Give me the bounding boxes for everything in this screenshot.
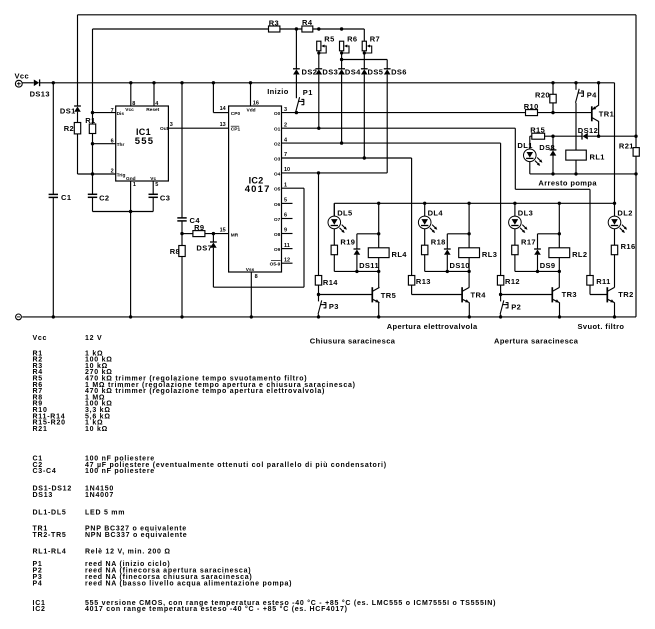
wire DS12 to R21 node bbox=[588, 135, 636, 137]
relay RL3 bbox=[459, 248, 480, 258]
svg-text:R17: R17 bbox=[521, 238, 536, 247]
junction rail-DL4 bbox=[423, 202, 426, 205]
diode DS5 bbox=[361, 68, 368, 70]
svg-text:DL3: DL3 bbox=[518, 209, 533, 218]
wire DL3 feed bbox=[514, 203, 516, 216]
junction gnd-P3 bbox=[317, 315, 320, 318]
junction Thr bbox=[91, 142, 94, 145]
wire TR1 collector down bbox=[598, 122, 600, 137]
svg-text:4017: 4017 bbox=[245, 184, 271, 195]
diode DS2 bbox=[293, 68, 300, 70]
LED DL2 bbox=[608, 216, 621, 229]
resistor R19 bbox=[331, 245, 337, 255]
IC2 pin14 wire bbox=[212, 83, 214, 113]
svg-text:100 nF poliestere: 100 nF poliestere bbox=[85, 468, 155, 475]
LED DL5 bbox=[328, 216, 341, 229]
junction RL3-DS10 line bbox=[467, 232, 470, 235]
resistor R15 bbox=[532, 133, 545, 139]
svg-text:O3: O3 bbox=[274, 156, 281, 162]
svg-text:Dis: Dis bbox=[117, 111, 125, 117]
wire R15 to DS12 bbox=[545, 135, 582, 137]
wire TR4 emitter to ground bbox=[468, 303, 470, 317]
svg-text:O5-9: O5-9 bbox=[270, 262, 281, 268]
wire IC1 pin6 bbox=[93, 143, 116, 145]
wire R11 to TR2 base bbox=[589, 285, 591, 294]
junction Trig bbox=[91, 172, 94, 175]
transistor TR3 (NPN) bbox=[551, 287, 553, 302]
wire R2 to Trig line bbox=[77, 134, 79, 174]
svg-text:DS6: DS6 bbox=[391, 68, 407, 77]
wire Vcc rail bbox=[40, 82, 615, 84]
junction rail-C1 bbox=[52, 81, 55, 84]
svg-text:DL5: DL5 bbox=[337, 209, 352, 218]
wire R12 to TR3 base bbox=[500, 285, 502, 294]
wire DS5 string bbox=[363, 53, 365, 69]
svg-text:DS9: DS9 bbox=[540, 261, 556, 270]
svg-text:DS4: DS4 bbox=[345, 68, 361, 77]
junction gnd-R8 bbox=[180, 315, 183, 318]
wire C3 to bottom line bbox=[152, 197, 154, 211]
wire DL3 to R17 bbox=[514, 229, 516, 246]
IC1 pin8 stub bbox=[130, 83, 132, 106]
IC2 unused stub O7 bbox=[282, 218, 293, 220]
svg-text:C3-C4: C3-C4 bbox=[33, 468, 57, 475]
wire RL3 to collector bbox=[468, 271, 470, 287]
svg-text:DS7: DS7 bbox=[196, 243, 212, 252]
svg-text:RL3: RL3 bbox=[482, 250, 497, 259]
wire TR2 emitter to ground bbox=[614, 303, 616, 317]
junction line2-R6 bbox=[340, 27, 343, 30]
wire DS4 string bbox=[341, 53, 343, 69]
svg-text:DS1: DS1 bbox=[60, 106, 76, 115]
IC2 unused stub O5-9 bbox=[282, 262, 293, 264]
svg-text:R4: R4 bbox=[302, 18, 313, 27]
junction rail-P4 bbox=[574, 81, 577, 84]
svg-text:16: 16 bbox=[253, 101, 259, 107]
trimmer R5 bbox=[317, 41, 321, 51]
LED DL1 bbox=[524, 149, 537, 162]
svg-text:R13: R13 bbox=[416, 277, 431, 286]
resistor R8 bbox=[179, 246, 185, 257]
wire R15 left to DL1 bbox=[530, 135, 532, 137]
wire channel bottom line bbox=[334, 270, 378, 272]
junction line2-DS2 bbox=[295, 27, 298, 30]
reed P2 bbox=[500, 295, 502, 302]
svg-text:470 kΩ trimmer (regolazione te: 470 kΩ trimmer (regolazione tempo apertu… bbox=[85, 388, 325, 395]
svg-text:TR2-TR5: TR2-TR5 bbox=[33, 532, 67, 539]
junction rail-RL2 bbox=[558, 202, 561, 205]
junction channel rail feed bbox=[613, 202, 616, 205]
svg-text:C1: C1 bbox=[61, 193, 71, 202]
svg-text:O1: O1 bbox=[274, 127, 281, 133]
junction bottom line - pin1 bbox=[129, 210, 132, 213]
transistor TR4 (NPN) bbox=[461, 287, 463, 302]
junction O0-R20 bbox=[551, 111, 554, 114]
wire O4 to R14 bbox=[318, 173, 320, 276]
svg-text:R21: R21 bbox=[619, 141, 634, 150]
svg-text:R20: R20 bbox=[535, 91, 550, 100]
svg-text:15: 15 bbox=[220, 228, 226, 234]
svg-text:12 V: 12 V bbox=[85, 335, 102, 342]
diode DS11 bbox=[354, 248, 361, 250]
svg-text:9: 9 bbox=[284, 228, 287, 234]
ground terminal bbox=[16, 314, 22, 320]
resistor R14 bbox=[315, 276, 321, 286]
svg-text:NPN BC337 o equivalente: NPN BC337 o equivalente bbox=[85, 532, 187, 539]
wire C2 to bottom line bbox=[92, 197, 94, 211]
wire IC1 pin2 bbox=[78, 173, 116, 175]
junction DS4-DS6 link bbox=[340, 58, 343, 61]
svg-text:11: 11 bbox=[284, 243, 290, 249]
resistor R12 bbox=[497, 276, 503, 286]
svg-text:R6: R6 bbox=[347, 35, 357, 44]
diode DS1 bbox=[74, 105, 81, 107]
wire channel bottom line bbox=[425, 270, 469, 272]
junction R12-P2 bbox=[499, 293, 502, 296]
svg-text:R3: R3 bbox=[269, 18, 279, 27]
wire C1 to ground bbox=[52, 197, 54, 317]
wire Vcc terminal to DS13 bbox=[22, 82, 34, 84]
junction O0-P1 bbox=[295, 111, 298, 114]
svg-text:P4: P4 bbox=[33, 580, 43, 587]
wire DS10 string bbox=[446, 234, 448, 249]
wire top line 2 (R1 node to R3 R4 trimmers) bbox=[93, 28, 269, 30]
junction O3-DS5 bbox=[363, 156, 366, 159]
svg-text:DL4: DL4 bbox=[428, 209, 444, 218]
transistor TR1 (PNP) bbox=[591, 106, 593, 121]
wire C4 to R9 junction bbox=[181, 221, 183, 246]
wire R20 bbox=[552, 83, 554, 95]
svg-text:7: 7 bbox=[111, 108, 114, 114]
svg-text:CP1: CP1 bbox=[231, 127, 241, 133]
transistor TR5 (NPN) bbox=[371, 287, 373, 302]
wire C4 feed from rail bbox=[181, 83, 183, 218]
svg-text:DL1-DL5: DL1-DL5 bbox=[33, 510, 67, 517]
svg-text:Vc: Vc bbox=[150, 176, 156, 182]
junction R21 bottom bbox=[634, 172, 637, 175]
svg-text:O4: O4 bbox=[274, 171, 281, 177]
junction DS11 bottom bbox=[355, 270, 358, 273]
junction RL3 bottom bbox=[467, 270, 470, 273]
wire RL2 to collector bbox=[558, 271, 560, 287]
resistor R3 bbox=[269, 26, 280, 32]
LED DL4 bbox=[418, 216, 431, 229]
junction gnd-C1 bbox=[52, 315, 55, 318]
IC1 pin4 stub bbox=[153, 83, 155, 106]
svg-text:Vcc: Vcc bbox=[15, 71, 30, 80]
IC2 pin16 stub bbox=[250, 83, 252, 106]
junction RL1 bottom bbox=[574, 172, 577, 175]
resistor R16 bbox=[611, 245, 617, 255]
reed P1 (inizio) bbox=[296, 97, 300, 111]
wire DL4 feed bbox=[424, 203, 426, 216]
svg-text:P2: P2 bbox=[511, 303, 521, 312]
transistor TR2 (NPN) bbox=[606, 287, 608, 302]
junction DS8 bottom bbox=[551, 172, 554, 175]
svg-text:RL1: RL1 bbox=[590, 152, 605, 161]
junction RL2-DS9 line bbox=[558, 232, 561, 235]
wire IC1 out to IC2 pin13 bbox=[168, 127, 228, 129]
svg-text:O2: O2 bbox=[274, 142, 281, 148]
junction O4-R14 bbox=[317, 171, 320, 174]
relay RL1 bbox=[566, 150, 587, 160]
wire channel bottom line bbox=[515, 270, 559, 272]
wire R19 to bottom line bbox=[333, 255, 335, 272]
junction O1-DS3 bbox=[317, 127, 320, 130]
wire RL4 to collector bbox=[378, 271, 380, 287]
svg-text:R7: R7 bbox=[370, 35, 380, 44]
svg-text:LED 5 mm: LED 5 mm bbox=[85, 510, 125, 517]
junction rail-R20 bbox=[551, 81, 554, 84]
diode DS10 bbox=[444, 248, 451, 250]
junction RL4-DS11 line bbox=[377, 232, 380, 235]
svg-text:Chiusura saracinesca: Chiusura saracinesca bbox=[310, 337, 396, 346]
wire DL5 to R19 bbox=[333, 229, 335, 246]
svg-text:DS3: DS3 bbox=[322, 68, 338, 77]
diode DS9 bbox=[534, 248, 541, 250]
svg-text:O6: O6 bbox=[274, 202, 281, 208]
wire IC1 pin7 bbox=[93, 112, 116, 114]
wire R9 junctions bbox=[182, 233, 193, 235]
svg-text:1: 1 bbox=[133, 182, 136, 188]
wire R8 to ground bbox=[181, 257, 183, 317]
svg-text:Vcc: Vcc bbox=[125, 107, 134, 113]
wire DL1 to bottom bbox=[529, 162, 531, 174]
IC2 unused stub O8 bbox=[282, 233, 293, 235]
IC2 unused stub O6 bbox=[282, 202, 293, 204]
resistor R2 bbox=[74, 123, 80, 134]
svg-text:555: 555 bbox=[135, 136, 154, 147]
wire RL3 vertical bbox=[468, 203, 470, 248]
relay RL2 bbox=[549, 248, 570, 258]
svg-text:Apertura elettrovalvola: Apertura elettrovalvola bbox=[387, 322, 478, 331]
svg-text:Reset: Reset bbox=[146, 107, 159, 113]
diode DS13 bbox=[39, 79, 41, 86]
svg-text:Vss: Vss bbox=[246, 267, 255, 273]
junction R1-pin7 bbox=[91, 111, 94, 114]
op-amp IC1 555 box bbox=[116, 106, 169, 181]
svg-text:DL2: DL2 bbox=[617, 208, 632, 217]
wire R21 leads bbox=[635, 136, 637, 147]
counter IC2 4017 box bbox=[229, 106, 282, 272]
svg-text:R15: R15 bbox=[530, 126, 545, 135]
svg-text:Svuot. filtro: Svuot. filtro bbox=[578, 322, 625, 331]
svg-text:R16: R16 bbox=[621, 242, 636, 251]
wire RL1 vertical bbox=[575, 136, 577, 150]
svg-text:R21: R21 bbox=[33, 426, 48, 433]
junction gnd-TR2 bbox=[613, 315, 616, 318]
svg-text:8: 8 bbox=[132, 101, 135, 107]
trimmer R6 bbox=[340, 41, 344, 51]
svg-text:5: 5 bbox=[155, 182, 158, 188]
svg-text:MR: MR bbox=[231, 232, 239, 238]
svg-text:14: 14 bbox=[220, 106, 227, 112]
svg-text:3: 3 bbox=[170, 122, 173, 128]
svg-text:Trig: Trig bbox=[117, 172, 126, 178]
svg-text:DL1: DL1 bbox=[517, 141, 532, 150]
resistor R18 bbox=[422, 245, 428, 255]
junction DS10 bottom bbox=[446, 270, 449, 273]
svg-text:Apertura saracinesca: Apertura saracinesca bbox=[494, 337, 579, 346]
svg-text:TR1: TR1 bbox=[599, 110, 614, 119]
svg-text:RL4: RL4 bbox=[392, 250, 408, 259]
reed P4 bbox=[575, 83, 577, 90]
capacitor C3 bbox=[149, 193, 158, 195]
capacitor C2 bbox=[88, 193, 97, 195]
junction line2-R5 bbox=[317, 27, 320, 30]
svg-text:C2: C2 bbox=[99, 194, 109, 203]
svg-text:7: 7 bbox=[284, 152, 287, 158]
wire O4 line bbox=[282, 172, 388, 174]
diode DS7 bbox=[210, 241, 217, 243]
wire DS9 string bbox=[537, 234, 539, 249]
resistor R9 bbox=[193, 231, 205, 237]
svg-text:Arresto pompa: Arresto pompa bbox=[538, 178, 597, 187]
relay RL4 bbox=[368, 248, 389, 258]
wire IC1 pin1 to ground bbox=[130, 181, 132, 317]
junction RL4 bottom bbox=[377, 270, 380, 273]
svg-text:Gnd: Gnd bbox=[126, 176, 136, 182]
wire C2-C3 bottom line bbox=[93, 211, 154, 213]
wire R16 to TR2 collector bbox=[614, 255, 616, 288]
svg-text:4017 con range temperatura est: 4017 con range temperatura esteso -40 °C… bbox=[85, 605, 348, 613]
wire TR5 emitter to ground bbox=[378, 303, 380, 317]
wire O1 line bbox=[282, 127, 516, 129]
svg-text:Thr: Thr bbox=[117, 142, 125, 148]
svg-text:TR2: TR2 bbox=[618, 290, 633, 299]
diode DS8 bbox=[550, 149, 557, 151]
svg-text:DS10: DS10 bbox=[450, 261, 470, 270]
svg-text:P1: P1 bbox=[303, 88, 313, 97]
svg-text:6: 6 bbox=[111, 139, 114, 145]
wire O2 line bbox=[282, 142, 501, 144]
wire channel top rail bbox=[334, 202, 614, 204]
svg-text:R1: R1 bbox=[85, 116, 95, 125]
svg-text:Vdd: Vdd bbox=[247, 108, 256, 114]
svg-text:P4: P4 bbox=[587, 91, 597, 100]
junction rail-TR1 emitter bbox=[597, 81, 600, 84]
wire R17 to bottom line bbox=[514, 255, 516, 272]
diode DS6 bbox=[384, 68, 391, 70]
svg-text:DS5: DS5 bbox=[368, 68, 384, 77]
svg-text:1: 1 bbox=[284, 182, 287, 188]
resistor R13 bbox=[408, 276, 414, 286]
wire IC1 pin5 to C3 bbox=[152, 181, 154, 194]
svg-text:Vcc: Vcc bbox=[33, 335, 48, 342]
wire DS1 to R2 bbox=[77, 112, 79, 123]
svg-text:R14: R14 bbox=[323, 278, 338, 287]
capacitor C1 bbox=[49, 193, 58, 195]
IC2 unused stub O9 bbox=[282, 248, 293, 250]
svg-text:DS11: DS11 bbox=[359, 261, 379, 270]
wire DS6 link bbox=[342, 59, 388, 61]
svg-text:TR3: TR3 bbox=[562, 290, 577, 299]
svg-text:R11: R11 bbox=[596, 277, 611, 286]
svg-text:Relè 12 V, min. 200 Ω: Relè 12 V, min. 200 Ω bbox=[85, 549, 171, 556]
wire TR3 emitter to ground bbox=[559, 303, 561, 317]
svg-text:2: 2 bbox=[111, 168, 114, 174]
wire Vcc drop to channel rail bbox=[614, 83, 616, 216]
svg-text:R2: R2 bbox=[64, 124, 74, 133]
junction gnd-IC1 pin1 bbox=[129, 315, 132, 318]
resistor R20 bbox=[550, 94, 556, 103]
svg-text:O5: O5 bbox=[274, 187, 281, 193]
wire R18 to bottom line bbox=[424, 255, 426, 272]
wire R14 to TR5 base bbox=[318, 285, 320, 294]
LED DL3 bbox=[509, 216, 522, 229]
svg-text:TR4: TR4 bbox=[471, 290, 487, 299]
IC2 pin8 stub Vss bbox=[250, 272, 252, 317]
wire O0 line bbox=[282, 112, 526, 114]
svg-text:5: 5 bbox=[284, 198, 287, 204]
junction R15-DS8 bbox=[551, 135, 554, 138]
reed P3 bbox=[318, 295, 320, 302]
wire DS2 string bbox=[295, 29, 297, 69]
wire DS8 string bbox=[552, 136, 554, 150]
svg-text:10 kΩ: 10 kΩ bbox=[85, 426, 108, 433]
junction gnd-TR4 bbox=[468, 315, 471, 318]
junction rail-IC2 pin14 bbox=[212, 81, 215, 84]
resistor R1 bbox=[89, 124, 95, 134]
svg-text:3: 3 bbox=[284, 107, 287, 113]
resistor R17 bbox=[512, 245, 518, 255]
svg-text:RL2: RL2 bbox=[572, 250, 587, 259]
svg-text:Inizio: Inizio bbox=[267, 87, 289, 96]
junction rail-RL3 bbox=[467, 202, 470, 205]
svg-text:10: 10 bbox=[284, 167, 290, 173]
wire DS7 to O5 loop bbox=[212, 248, 214, 288]
wire DL5 feed bbox=[333, 203, 335, 216]
junction rail-C4 bbox=[180, 81, 183, 84]
svg-text:13: 13 bbox=[220, 122, 226, 128]
wire rail to C1 bbox=[52, 83, 54, 195]
svg-text:DS12: DS12 bbox=[578, 126, 598, 135]
svg-text:O8: O8 bbox=[274, 232, 281, 238]
svg-text:IC2: IC2 bbox=[33, 606, 46, 613]
junction rail-RL4 bbox=[377, 202, 380, 205]
svg-text:O9: O9 bbox=[274, 247, 281, 253]
svg-text:R12: R12 bbox=[505, 277, 520, 286]
wire R13 to TR4 base bbox=[411, 285, 413, 294]
svg-text:R18: R18 bbox=[431, 238, 446, 247]
svg-text:2: 2 bbox=[284, 122, 287, 128]
svg-text:Out: Out bbox=[160, 126, 169, 132]
svg-text:TR5: TR5 bbox=[381, 291, 396, 300]
svg-text:R10: R10 bbox=[524, 102, 539, 111]
svg-text:R9: R9 bbox=[194, 223, 204, 232]
resistor R11 bbox=[587, 276, 593, 286]
wire DS7 top bbox=[212, 234, 214, 242]
svg-text:P3: P3 bbox=[329, 302, 339, 311]
wire DS11 string bbox=[356, 234, 358, 249]
junction RL2 bottom bbox=[558, 270, 561, 273]
svg-text:DS2: DS2 bbox=[302, 68, 318, 77]
junction gnd-P2 bbox=[499, 315, 502, 318]
svg-text:O0: O0 bbox=[274, 111, 281, 117]
resistor R21 bbox=[633, 148, 639, 157]
wire arresto bottom line bbox=[530, 173, 636, 175]
svg-text:C3: C3 bbox=[160, 194, 170, 203]
junction gnd-TR5 bbox=[377, 315, 380, 318]
resistor R4 bbox=[302, 26, 313, 32]
resistor R10 bbox=[526, 110, 538, 116]
svg-text:O7: O7 bbox=[274, 217, 281, 223]
junction rail-IC1 pin4 bbox=[152, 81, 155, 84]
junction gnd-IC2 Vss bbox=[250, 315, 253, 318]
diode DS12 bbox=[581, 133, 583, 140]
svg-text:DS8: DS8 bbox=[539, 143, 555, 152]
wire top line 1 (DS1 to R21 node) bbox=[78, 14, 637, 16]
